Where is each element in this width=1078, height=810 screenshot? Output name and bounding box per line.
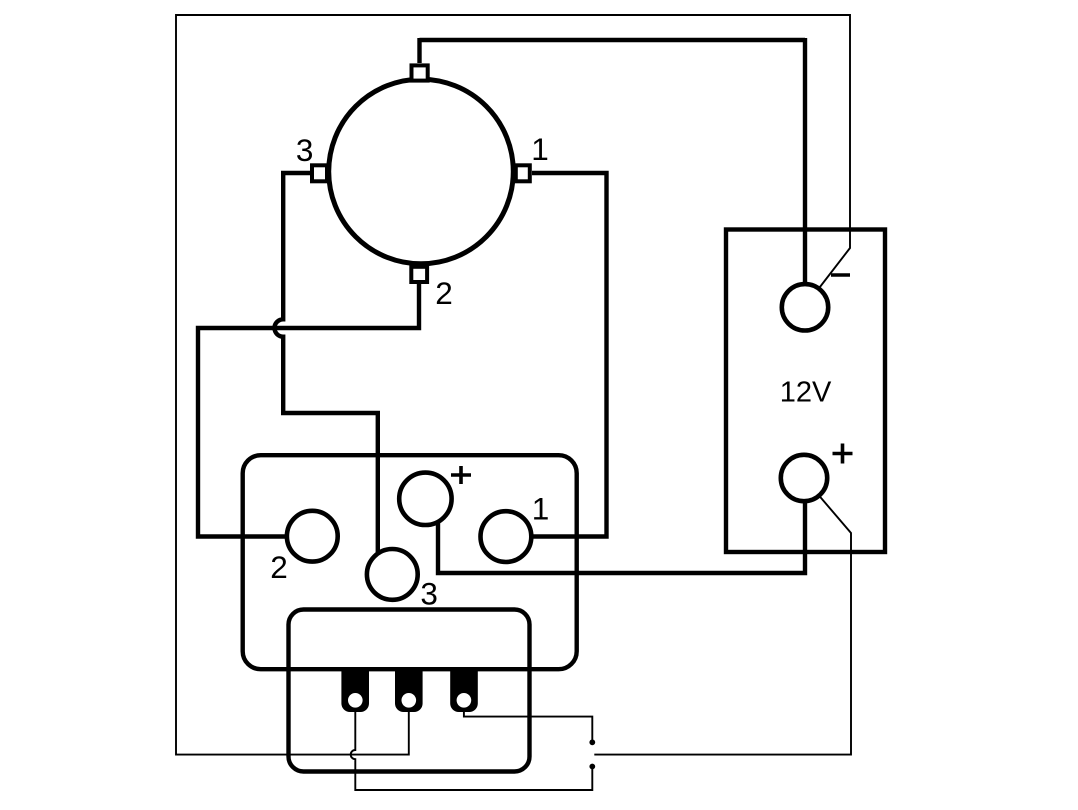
wire: connector plus to battery positive	[438, 490, 805, 573]
plug body box	[289, 610, 530, 772]
battery minus sign	[831, 273, 850, 277]
svg-text:2: 2	[435, 275, 453, 311]
pin B (black tab)	[395, 668, 423, 712]
wire: motor terminal 3 to connector circle 3 (hop over wire 2)	[274, 173, 377, 560]
wire: thin loop from pin B up-around to battery negative (left/top frame)	[176, 15, 850, 755]
motor terminal square top	[412, 65, 428, 80]
connector circle 3	[367, 549, 418, 600]
wire: thin from pin A to switch lower contact (with hop)	[351, 700, 593, 790]
battery box	[726, 230, 885, 553]
wire: thin from pin C to switch upper contact	[464, 700, 592, 740]
motor body circle	[329, 79, 514, 264]
wire: motor top terminal to battery negative	[420, 38, 806, 295]
switch upper contact dot	[589, 739, 595, 745]
wire: thin from battery positive down right side to switch blade	[594, 478, 851, 755]
pin A hole	[348, 693, 363, 708]
connector plus sign	[451, 466, 471, 484]
pin B hole	[402, 693, 417, 708]
motor terminal square bottom (2)	[411, 267, 427, 282]
wire: motor terminal 1 to connector circle 1	[530, 173, 607, 537]
svg-text:12V: 12V	[780, 377, 832, 409]
pin C (black tab)	[450, 668, 478, 712]
svg-text:1: 1	[532, 491, 550, 527]
pin C hole	[457, 693, 472, 708]
svg-text:1: 1	[531, 131, 549, 167]
motor terminal square left (3)	[312, 165, 327, 181]
battery negative terminal	[782, 284, 828, 330]
pin A (black tab)	[341, 668, 369, 712]
svg-text:2: 2	[270, 549, 288, 585]
svg-text:3: 3	[296, 132, 314, 168]
connector circle 1	[481, 511, 532, 562]
battery plus sign	[833, 444, 853, 464]
battery positive terminal	[781, 455, 827, 501]
connector circle 2	[287, 511, 338, 562]
svg-text:3: 3	[420, 576, 438, 612]
connector circle plus	[399, 473, 451, 525]
wire: motor terminal 2 to connector circle 2	[198, 284, 419, 537]
switch lower contact dot	[589, 764, 595, 770]
connector (regulator) box	[243, 455, 577, 669]
motor terminal square right (1)	[516, 165, 530, 181]
